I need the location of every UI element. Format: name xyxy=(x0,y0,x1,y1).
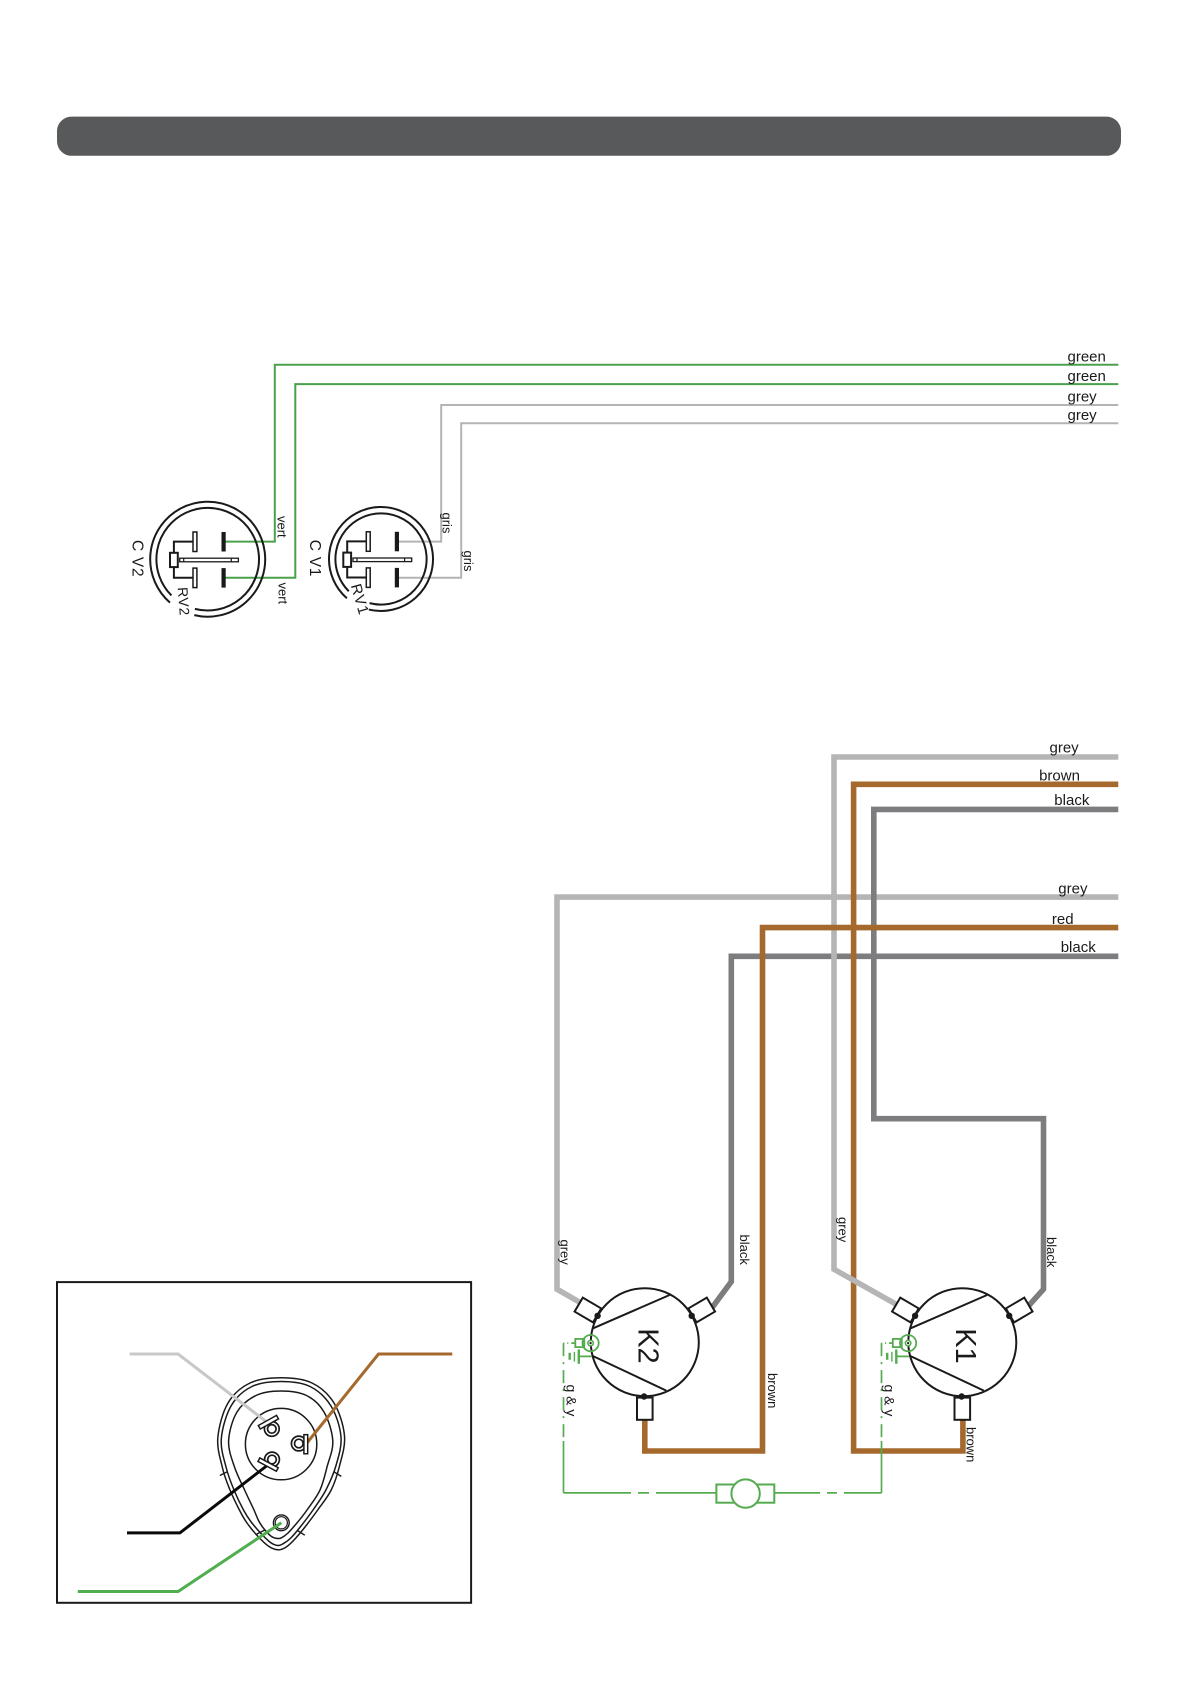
svg-text:black: black xyxy=(1044,1237,1059,1268)
wire gris/grey 2 (C V1 bottom pin to right edge) xyxy=(398,423,1118,578)
svg-text:brown: brown xyxy=(1039,767,1080,784)
wire black to K2 (upper-right terminal) xyxy=(707,956,1118,1314)
motor K2 chord upper xyxy=(593,1295,670,1328)
wire C V1 top-left pin to resistor xyxy=(347,541,366,552)
inset box frame xyxy=(57,1282,471,1603)
earth wire g&y K1 (dash-dot) xyxy=(882,1342,894,1344)
resistor RV2 xyxy=(170,553,178,567)
svg-text:black: black xyxy=(737,1235,752,1266)
switch C V2 pin 1 (top-left) xyxy=(193,532,197,552)
wire gris/grey 1 (C V1 top pin to right edge) xyxy=(398,405,1118,542)
svg-text:C V2: C V2 xyxy=(129,540,146,577)
svg-text:red: red xyxy=(1052,911,1074,928)
svg-text:grey: grey xyxy=(1058,880,1088,897)
svg-text:grey: grey xyxy=(836,1217,851,1243)
svg-text:vert: vert xyxy=(276,583,291,605)
switch C V1 pin 4 (bottom-right) xyxy=(395,568,399,588)
inset pin 1 (top-left) xyxy=(264,1422,279,1437)
motor K1 terminal upper-left xyxy=(892,1298,919,1323)
svg-text:grey: grey xyxy=(558,1240,573,1266)
switch C V2 outer ring xyxy=(150,502,265,617)
motor K1 chord lower xyxy=(910,1356,984,1391)
inset connector inner outline xyxy=(229,1391,333,1539)
wire brown to K1 (bottom terminal) xyxy=(854,784,1119,1451)
switch C V2 pin 3 (bottom-left) xyxy=(193,568,197,588)
inset wire green xyxy=(78,1523,281,1592)
motor K2 terminal upper-left xyxy=(575,1298,602,1323)
inset pin 3 (bottom-left) xyxy=(265,1452,280,1467)
svg-text:green: green xyxy=(1068,368,1106,385)
motor K1 terminal upper-right xyxy=(1006,1298,1033,1323)
inset connector outer outline xyxy=(218,1378,345,1550)
motor K2 body circle xyxy=(591,1288,699,1396)
svg-text:RV2: RV2 xyxy=(175,587,193,617)
wire vert/green 2 (C V2 bottom pin to right edge) xyxy=(225,384,1118,578)
switch C V1 pin 3 (bottom-left) xyxy=(366,568,370,588)
switch C V1 actuator bar xyxy=(353,558,412,562)
svg-text:vert: vert xyxy=(275,516,290,538)
svg-text:gris: gris xyxy=(439,513,454,534)
motor K2 earth ring terminal xyxy=(575,1339,584,1347)
motor K1 body circle xyxy=(908,1288,1016,1396)
svg-text:gris: gris xyxy=(461,551,476,572)
title bar xyxy=(57,117,1121,156)
svg-text:brown: brown xyxy=(765,1373,780,1408)
switch C V1 outer ring xyxy=(329,507,433,611)
wire grey to K2 (upper-left terminal) xyxy=(557,897,1118,1310)
inset connector pin circle xyxy=(245,1408,316,1479)
inset wire black xyxy=(127,1466,267,1533)
earth wire g&y K2 (dash-dot) xyxy=(564,1342,576,1344)
wire C V2 bottom-left pin to resistor xyxy=(174,567,193,578)
svg-text:brown: brown xyxy=(964,1427,979,1462)
inset connector notch upper right xyxy=(334,1472,342,1477)
motor K1 chord upper xyxy=(911,1295,988,1328)
inset wire grey xyxy=(130,1354,266,1422)
motor K2 ground symbol xyxy=(579,1355,592,1357)
switch C V1 pin 2 (top-right) xyxy=(395,532,399,552)
inset connector notch upper left xyxy=(220,1472,228,1476)
svg-text:K1: K1 xyxy=(949,1328,981,1363)
svg-text:g & y: g & y xyxy=(564,1385,580,1417)
inset connector notch lower left xyxy=(256,1530,264,1534)
switch C V1 inner ring xyxy=(335,513,426,604)
inset pin 2 (right) xyxy=(291,1436,306,1451)
svg-text:black: black xyxy=(1054,792,1090,809)
svg-text:C V1: C V1 xyxy=(306,540,323,577)
switch C V1 pin 1 (top-left) xyxy=(366,532,370,552)
motor K2 chord lower xyxy=(592,1356,666,1391)
wire C V2 top-left pin to resistor xyxy=(174,542,193,553)
svg-text:g & y: g & y xyxy=(882,1385,898,1417)
svg-text:grey: grey xyxy=(1068,407,1098,424)
resistor RV1 xyxy=(343,553,351,567)
earth bus wire xyxy=(564,1492,621,1494)
svg-text:grey: grey xyxy=(1050,740,1080,757)
motor K2 terminal bottom xyxy=(637,1398,653,1420)
motor K1 ground symbol xyxy=(896,1355,909,1357)
wire C V1 bottom-left pin to resistor xyxy=(347,567,366,578)
switch C V2 pin 4 (bottom-right) xyxy=(222,568,226,588)
svg-text:green: green xyxy=(1068,348,1106,365)
switch C V2 inner ring xyxy=(156,508,259,611)
inline connector symbol on earth bus xyxy=(716,1485,745,1503)
motor K1 terminal bottom xyxy=(955,1398,971,1420)
svg-text:grey: grey xyxy=(1068,389,1098,406)
switch C V2 actuator bar xyxy=(180,558,239,562)
motor K1 earth ring terminal xyxy=(893,1339,902,1347)
inset wire brown xyxy=(307,1354,453,1444)
wire grey to K1 (upper-left terminal) xyxy=(834,757,1118,1315)
switch C V2 pin 2 (top-right) xyxy=(222,532,226,552)
wire vert/green 1 (C V2 top pin to right edge) xyxy=(225,365,1118,542)
motor K2 terminal upper-right xyxy=(688,1298,715,1323)
inset connector notch lower right xyxy=(297,1530,305,1535)
wire red to K2 (bottom terminal) xyxy=(645,928,1119,1451)
wire black to K1 (upper-right terminal) xyxy=(874,809,1119,1316)
inset mounting hole xyxy=(273,1515,289,1531)
svg-text:black: black xyxy=(1061,939,1097,956)
svg-text:K2: K2 xyxy=(632,1328,664,1363)
